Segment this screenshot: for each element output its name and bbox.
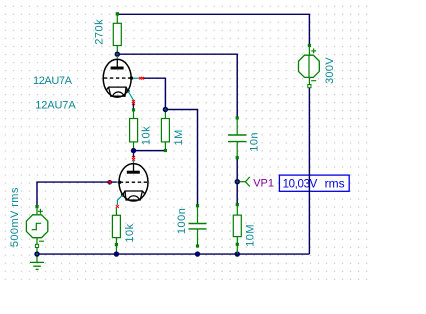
resistor R5 10M xyxy=(233,203,241,254)
wire grid1 teal segment xyxy=(132,77,140,79)
node junction 10M bottom xyxy=(235,251,240,256)
wire grid2 to source xyxy=(37,182,117,206)
svg-text:300V: 300V xyxy=(324,57,336,84)
wire bottom rail xyxy=(37,253,309,255)
wire 10n bottom to VP1 to 10M xyxy=(236,158,238,205)
wire cathode2 (teal) xyxy=(117,195,122,205)
node junction 10k1 bottom xyxy=(131,148,136,153)
svg-text:100n: 100n xyxy=(176,208,188,234)
svg-text:10n: 10n xyxy=(249,132,261,152)
svg-text:10k: 10k xyxy=(141,126,153,145)
svg-text:12AU7A: 12AU7A xyxy=(33,75,73,87)
source V1 300V xyxy=(299,44,320,88)
capacitor C1 100n xyxy=(189,204,207,247)
resistor R3 1M xyxy=(161,110,169,153)
wire 10k1 bottom to 1M bottom xyxy=(134,150,166,152)
wire right side (over meter box) xyxy=(308,88,310,254)
red pin marks cathode2 xyxy=(116,205,119,208)
red pin marks cathode1 xyxy=(132,100,135,105)
node junction 1M top xyxy=(163,107,168,112)
node junction 100n bottom xyxy=(195,251,200,256)
op tube U2 12AU7A (lower triode) xyxy=(118,151,148,201)
node junction ground xyxy=(34,251,39,256)
wire anode1 to 10n xyxy=(117,54,237,118)
node VP1 probe xyxy=(235,177,250,187)
wire grid2 teal segment xyxy=(117,181,119,183)
node junction 10k2 bottom xyxy=(114,251,119,256)
wire top rail xyxy=(117,14,309,45)
wire grid1 to 1M top xyxy=(143,78,165,109)
svg-text:rms: rms xyxy=(325,177,345,191)
wire cathode1 to 10k xyxy=(132,104,134,111)
svg-text:12AU7A: 12AU7A xyxy=(35,100,76,112)
svg-text:1M: 1M xyxy=(173,129,185,145)
svg-text:500mV rms: 500mV rms xyxy=(9,187,21,247)
red pin marks grid1 xyxy=(139,77,144,80)
wire 1M top to 100n top xyxy=(165,110,197,207)
grid background xyxy=(2,2,370,281)
red pin marks anode2 xyxy=(132,156,135,161)
generator VG1 500mV xyxy=(26,205,47,254)
svg-text:270k: 270k xyxy=(93,19,105,45)
resistor R1 270k xyxy=(113,12,121,54)
resistor R2 10k (upper) xyxy=(130,108,138,150)
node junction anode1 xyxy=(115,52,120,57)
capacitor C2 10n xyxy=(228,116,246,159)
svg-text:VP1: VP1 xyxy=(253,178,274,190)
svg-text:10k: 10k xyxy=(124,223,136,242)
svg-text:10M: 10M xyxy=(245,224,257,247)
resistor R4 10k (lower) xyxy=(112,208,120,254)
op tube U1 12AU7A (upper triode) xyxy=(103,56,133,97)
wire cathode1 (teal) xyxy=(128,91,133,104)
meter box 10,03V rms xyxy=(279,175,349,191)
red pin marks grid2 xyxy=(107,180,112,185)
ground xyxy=(30,254,44,270)
svg-text:10,03V: 10,03V xyxy=(283,179,318,191)
